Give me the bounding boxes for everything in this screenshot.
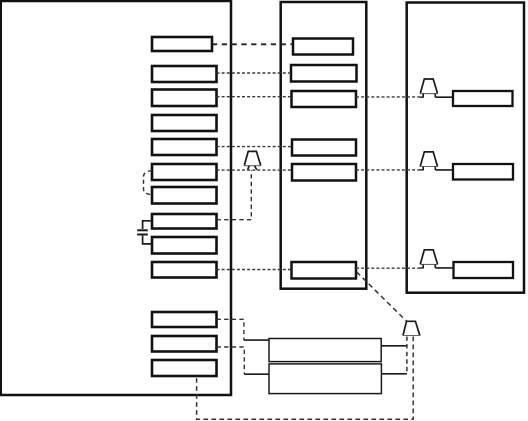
buzzer symbol A2 (right box, middle) xyxy=(420,152,438,170)
buzzer symbol A5 (near bottom-right, above wide blocks) xyxy=(403,321,421,335)
block M2 xyxy=(291,65,357,82)
block M6 xyxy=(292,262,357,279)
block L6 xyxy=(152,164,217,180)
block L5 xyxy=(152,139,217,155)
wire M6 to buzzer A3 (dotted) xyxy=(356,267,423,269)
block L9 xyxy=(152,237,217,254)
block R2 xyxy=(453,164,513,180)
wire M3 to buzzer A1 (dotted) xyxy=(356,96,423,98)
buzzer symbol A4 (between left and middle boxes) xyxy=(244,151,261,169)
block M4 xyxy=(292,140,356,156)
wire L8 to buzzer A4 (dashed, horizontal then up) xyxy=(217,170,252,220)
block R1 xyxy=(453,91,513,106)
wire L5 to M4 (dotted) xyxy=(217,146,293,148)
buzzer A5 right leg to bottom route (dashed) xyxy=(197,337,414,420)
wire L3 to M3 (dotted) xyxy=(217,96,292,98)
block L3 xyxy=(152,90,217,107)
wire B1 to buzzer A5 left leg (solid) xyxy=(381,345,407,347)
wire L10 to M6 (dotted) xyxy=(217,269,292,271)
block L11 xyxy=(152,312,217,327)
block B2 (lower wide block, bottom group) xyxy=(269,364,381,394)
wire M6 to buzzer A5 (diagonal dashed) xyxy=(357,272,407,321)
block B1 (upper wide block, bottom group) xyxy=(269,339,381,362)
block L7 xyxy=(152,187,217,204)
wire L1 to M1 (long dash) xyxy=(212,43,293,45)
left unit enclosure box xyxy=(1,1,231,395)
wire L2 to M2 (dotted) xyxy=(217,72,292,74)
wire L11 to B1 (dashed then solid) xyxy=(217,319,244,340)
block L10 xyxy=(152,262,217,278)
wire L6 to M5 (dotted) xyxy=(217,169,293,171)
block M1 xyxy=(293,39,353,55)
right unit enclosure box xyxy=(407,3,524,293)
capacitor C1 between L8 and L9 xyxy=(137,221,152,244)
block L4 xyxy=(152,115,217,131)
block R3 xyxy=(454,262,514,278)
block M3 xyxy=(292,91,357,107)
buzzer symbol A3 (right box, bottom) xyxy=(420,250,438,268)
block L2 xyxy=(152,66,217,82)
block L13 xyxy=(152,360,217,376)
wire buzzer A1 to R1 (solid) xyxy=(435,96,453,98)
block M5 xyxy=(292,164,356,181)
wire buzzer A3 to R3 (solid) xyxy=(435,267,453,269)
wire L12 to B2 (dashed then solid) xyxy=(217,347,245,374)
block L12 xyxy=(152,336,217,352)
block L1 xyxy=(152,37,212,51)
buzzer symbol A1 (right box, top) xyxy=(420,79,438,97)
block L8 xyxy=(152,214,217,229)
buzzer A5 left leg (dashed vertical) xyxy=(406,337,408,375)
middle unit enclosure box xyxy=(281,2,367,289)
wire M5 to buzzer A2 (dotted) xyxy=(356,169,423,171)
wire buzzer A2 to R2 (solid) xyxy=(435,169,453,171)
dashed link bracket between L6 and L7 xyxy=(144,171,153,195)
wire B2 to buzzer A5 left leg (solid) xyxy=(382,373,407,375)
